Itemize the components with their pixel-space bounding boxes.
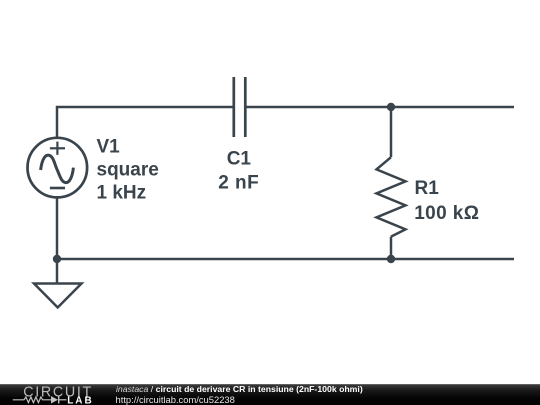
label R1 100 kOhm xyxy=(414,178,479,224)
svg-text:square: square xyxy=(97,160,159,181)
footer bar xyxy=(0,384,540,405)
svg-text:100 kΩ: 100 kΩ xyxy=(414,203,479,224)
wire resistor top lead xyxy=(390,107,393,157)
svg-text:2 nF: 2 nF xyxy=(218,173,259,194)
wire bottom horizontal xyxy=(57,258,514,261)
svg-text:1 kHz: 1 kHz xyxy=(97,182,147,203)
label V1 square 1 kHz xyxy=(97,137,159,204)
svg-text:C1: C1 xyxy=(227,149,252,170)
label C1 2 nF xyxy=(218,149,259,194)
wire top horizontal right (C1 to right end) xyxy=(246,106,514,109)
logo symbol diode xyxy=(51,396,58,403)
node top junction xyxy=(387,103,395,111)
logo symbol resistor xyxy=(13,397,51,403)
capacitor C1 xyxy=(234,77,246,137)
ground xyxy=(34,259,82,308)
svg-text:V1: V1 xyxy=(97,137,121,158)
footer title text xyxy=(116,384,363,394)
wire top horizontal left (source to C1) xyxy=(57,107,234,137)
wire resistor bottom lead xyxy=(390,237,393,259)
voltage source V1 xyxy=(28,138,88,198)
svg-text:LAB: LAB xyxy=(67,395,92,405)
node bottom right junction xyxy=(387,255,395,263)
CircuitLab logo xyxy=(0,384,100,405)
footer url text xyxy=(116,394,235,405)
wire left vertical (source to bottom node) xyxy=(56,198,59,259)
svg-text:R1: R1 xyxy=(415,178,440,199)
node bottom left junction xyxy=(53,255,61,263)
resistor R1 xyxy=(377,157,406,236)
